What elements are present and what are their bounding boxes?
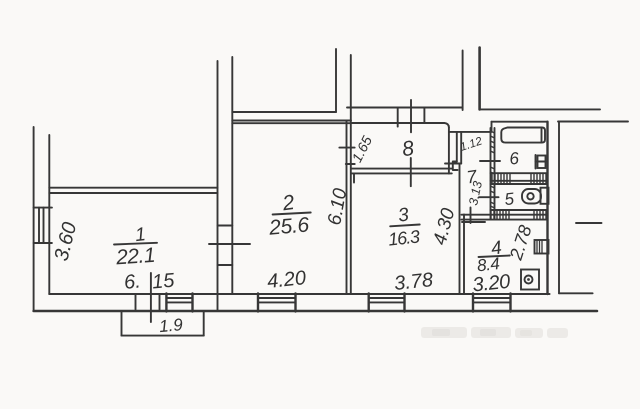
svg-text:22.1: 22.1	[114, 244, 155, 270]
label kitchen 4	[472, 237, 512, 296]
wire: bottom inner wall	[49, 293, 549, 295]
door jamb tick room3 top-left	[353, 173, 355, 182]
svg-text:2: 2	[280, 191, 296, 216]
WC toilet	[522, 188, 549, 204]
wall room3/kitchen lower double	[459, 164, 461, 295]
wire: left inner wall	[48, 135, 50, 294]
kitchen fridge symbol	[535, 240, 549, 254]
dim 6.10 rotated	[324, 186, 351, 226]
underline kitchen 4	[479, 256, 510, 258]
wire: upper-left neighbour wall vertical	[217, 61, 219, 311]
hall 7 top wall U	[449, 131, 489, 133]
wire: upper neighbour vertical at entry left	[462, 51, 464, 111]
unit right wall	[546, 122, 548, 294]
underline room 3	[390, 225, 420, 227]
svg-text:1.12: 1.12	[459, 135, 485, 154]
dim 3.78	[393, 269, 434, 295]
dim 1.12 rotated	[459, 135, 485, 154]
room 8 top wall	[351, 123, 449, 128]
wall 1/2 ticks	[218, 225, 233, 227]
svg-text:3.20: 3.20	[472, 271, 512, 297]
svg-text:2.78: 2.78	[505, 223, 535, 263]
washbasin bath	[536, 155, 546, 169]
label room 3	[387, 204, 421, 249]
wall 2/3 left line	[346, 121, 348, 295]
dim 4.30 rotated	[430, 206, 460, 248]
svg-text:16.3: 16.3	[387, 226, 421, 249]
wire: upper neighbour vertical at entry right	[478, 48, 481, 110]
wire: right neighbour tick	[576, 222, 602, 224]
tick on wall 2/3	[339, 147, 354, 149]
svg-text:4.20: 4.20	[266, 267, 307, 293]
door jamb notch	[453, 162, 458, 171]
wire: upper middle neighbour bottom	[347, 107, 463, 109]
top door ticks to upstairs	[397, 108, 399, 127]
wire: upper neighbour vertical	[335, 49, 337, 112]
svg-text:4.30: 4.30	[430, 206, 460, 248]
wire: bottom outer wall	[34, 310, 597, 313]
svg-text:3.60: 3.60	[51, 220, 82, 263]
underline room 2	[273, 213, 311, 215]
dim 1.65 rotated	[348, 133, 375, 165]
label bath 6	[508, 149, 520, 169]
room1 bottom door ticks	[135, 294, 137, 310]
svg-text:6.: 6.	[123, 271, 142, 294]
wall toilet/kitchen hatched band	[462, 210, 548, 220]
wire: wall room1/room2 right line	[231, 57, 233, 294]
door tick hall/toilet	[479, 196, 499, 198]
tick below room 8	[410, 158, 412, 186]
room 2 top wall double	[232, 120, 351, 122]
bath top wall	[492, 121, 548, 123]
dim 4.20	[266, 267, 307, 293]
window W1 room1	[166, 294, 192, 312]
kitchen stove symbol	[521, 270, 539, 290]
dimension arrow 6.15	[150, 273, 152, 322]
dim 3.13 rotated	[466, 180, 485, 207]
window W3 room3	[369, 294, 405, 312]
label room 1	[114, 224, 155, 269]
label wc 5	[504, 189, 516, 209]
wall bath/toilet hatched band	[491, 173, 548, 184]
window W4 kitchen	[473, 294, 511, 312]
window W2 room2	[258, 294, 296, 312]
svg-text:1.9: 1.9	[158, 315, 184, 336]
dim 3.60 left rotated	[51, 220, 82, 263]
svg-text:1.65: 1.65	[348, 133, 375, 165]
svg-text:3: 3	[397, 204, 411, 226]
label hall 7	[465, 166, 479, 187]
label room 2	[267, 191, 310, 240]
dim 6.15	[123, 269, 176, 293]
room 1 top wall double	[49, 187, 217, 189]
svg-text:3.78: 3.78	[393, 269, 434, 295]
door tick hall/bath	[480, 160, 500, 162]
wire: upper right neighbour bottom	[480, 108, 600, 110]
door ticks hall/kitchen	[470, 208, 472, 224]
bathtub	[501, 128, 545, 143]
svg-text:15: 15	[151, 269, 176, 293]
wire: left outer wall	[33, 127, 35, 311]
balcony	[122, 311, 204, 336]
dim 2.78 rotated	[505, 223, 535, 263]
svg-text:6: 6	[508, 149, 520, 169]
tick on wall 2/3 lower	[346, 163, 355, 165]
svg-text:8: 8	[401, 137, 416, 161]
dim 1.9 balcony	[158, 315, 184, 336]
window W0 left wall	[34, 208, 52, 243]
svg-text:25.6: 25.6	[267, 213, 310, 240]
wire: upper neighbour bottom edge	[232, 111, 336, 113]
label room 8	[401, 137, 416, 161]
door tick room3/hall	[445, 163, 461, 165]
wire: wall room2/room3 right line full	[350, 55, 352, 294]
svg-text:5: 5	[504, 189, 516, 209]
room 8 bottom wall double	[351, 168, 452, 170]
wall room3/hall upper double	[456, 132, 458, 162]
faint watermark	[421, 327, 568, 338]
room 8 right wall	[448, 128, 450, 174]
node: right neighbour room outline	[558, 121, 628, 123]
underline room 1	[114, 243, 157, 245]
bath block left wall double	[490, 128, 492, 220]
